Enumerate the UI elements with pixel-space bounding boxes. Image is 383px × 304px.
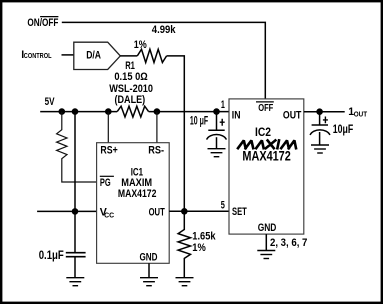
- svg-text:1%: 1%: [134, 39, 147, 51]
- svg-text:PG: PG: [100, 177, 111, 189]
- op-amp D/A converter symbol: [74, 42, 121, 69]
- svg-text:GND: GND: [140, 251, 158, 263]
- wire 5V rail right segment to IC2 IN: [149, 111, 229, 113]
- node junction dot Vcc: [72, 208, 79, 215]
- svg-text:0.1μF: 0.1μF: [39, 249, 64, 262]
- wire Vcc stub line: [37, 210, 97, 212]
- logo MAXIM (IC2 angular): [238, 140, 296, 148]
- wire ICONTROL to D/A input: [62, 54, 74, 56]
- svg-text:1%: 1%: [192, 242, 206, 254]
- svg-text:2, 3, 6, 7: 2, 3, 6, 7: [270, 237, 307, 249]
- resistor 4.99k 1%: [137, 49, 166, 62]
- svg-text:IN: IN: [232, 109, 241, 121]
- node junction dot 5V / RS-: [154, 108, 161, 115]
- svg-text:CC: CC: [104, 210, 115, 219]
- svg-text:ON/OFF: ON/OFF: [27, 17, 58, 29]
- svg-text:WSL-2010: WSL-2010: [109, 83, 153, 95]
- node junction dot 5V / Vcc branch: [72, 108, 79, 115]
- node junction dot 5V / 10uF / IC2 IN: [213, 108, 220, 115]
- ground IC2: [257, 250, 275, 252]
- svg-text:1.65k: 1.65k: [192, 231, 216, 243]
- ground 1.65k: [176, 277, 194, 279]
- wire 4.99k output down to SET node: [167, 56, 185, 211]
- svg-text:10 μF: 10 μF: [190, 114, 208, 127]
- op-amp IC2 MAX4172 box: [229, 99, 304, 234]
- svg-text:10μF: 10μF: [333, 123, 354, 136]
- svg-text:(DALE): (DALE): [115, 94, 146, 106]
- svg-text:5: 5: [221, 200, 225, 212]
- svg-text:OUT: OUT: [354, 110, 368, 119]
- wire 5V down to Vcc node and 0.1uF: [74, 112, 76, 253]
- wire RS+ drop: [107, 112, 109, 143]
- wire 5V rail left segment: [40, 111, 117, 113]
- svg-text:RS+: RS+: [100, 145, 117, 157]
- node junction dot OUT/SET/1.65k: [181, 208, 188, 215]
- svg-text:RS-: RS-: [148, 145, 164, 157]
- ground 0.1uF: [66, 277, 84, 279]
- wire IC1 GND stub: [148, 263, 150, 277]
- ground input 10uF: [208, 148, 226, 150]
- svg-text:GND: GND: [258, 222, 277, 234]
- wire IC2 OUT to output: [304, 111, 345, 113]
- ground output 10uF: [311, 144, 329, 146]
- svg-text:SET: SET: [232, 206, 247, 218]
- resistor R1 current-sense 0.15 0ohm WSL-2010 DALE: [117, 106, 148, 117]
- svg-text:OUT: OUT: [283, 109, 302, 121]
- ground IC1: [140, 277, 158, 279]
- wire RS- drop: [156, 112, 158, 143]
- svg-text:D/A: D/A: [86, 50, 101, 62]
- node junction dot OUT/10uF: [316, 108, 323, 115]
- resistor 1.65k 1%: [178, 211, 190, 277]
- capacitor 0.1uF: [66, 252, 86, 254]
- capacitor 10uF at IC2 IN (polarized): [216, 112, 218, 131]
- svg-text:IC2: IC2: [255, 125, 271, 139]
- op-amp IC1 MAX4172 box: [97, 143, 170, 264]
- svg-text:5V: 5V: [45, 96, 55, 108]
- svg-text:OFF: OFF: [258, 103, 273, 114]
- wire ON/OFF net to IC2 OFF pin: [62, 22, 265, 99]
- svg-text:MAX4172: MAX4172: [118, 188, 156, 200]
- svg-text:CONTROL: CONTROL: [24, 51, 52, 60]
- node junction dot 5V / left resistor: [59, 108, 66, 115]
- capacitor 10uF at IC2 OUT (polarized): [319, 112, 321, 125]
- wire D/A output to 4.99k resistor: [120, 55, 137, 57]
- node junction dot 5V / RS+: [105, 108, 112, 115]
- svg-text:0.15 0Ω: 0.15 0Ω: [114, 71, 148, 83]
- resistor unlabeled (left vertical) with wire to PG pin: [57, 112, 97, 182]
- svg-text:4.99k: 4.99k: [152, 24, 176, 36]
- wire IC1 OUT to IC2 SET: [169, 210, 229, 212]
- wire IC2 GND stub: [265, 234, 267, 250]
- svg-text:1: 1: [221, 99, 225, 111]
- svg-text:MAX4172: MAX4172: [242, 149, 290, 164]
- svg-text:OUT: OUT: [149, 207, 166, 219]
